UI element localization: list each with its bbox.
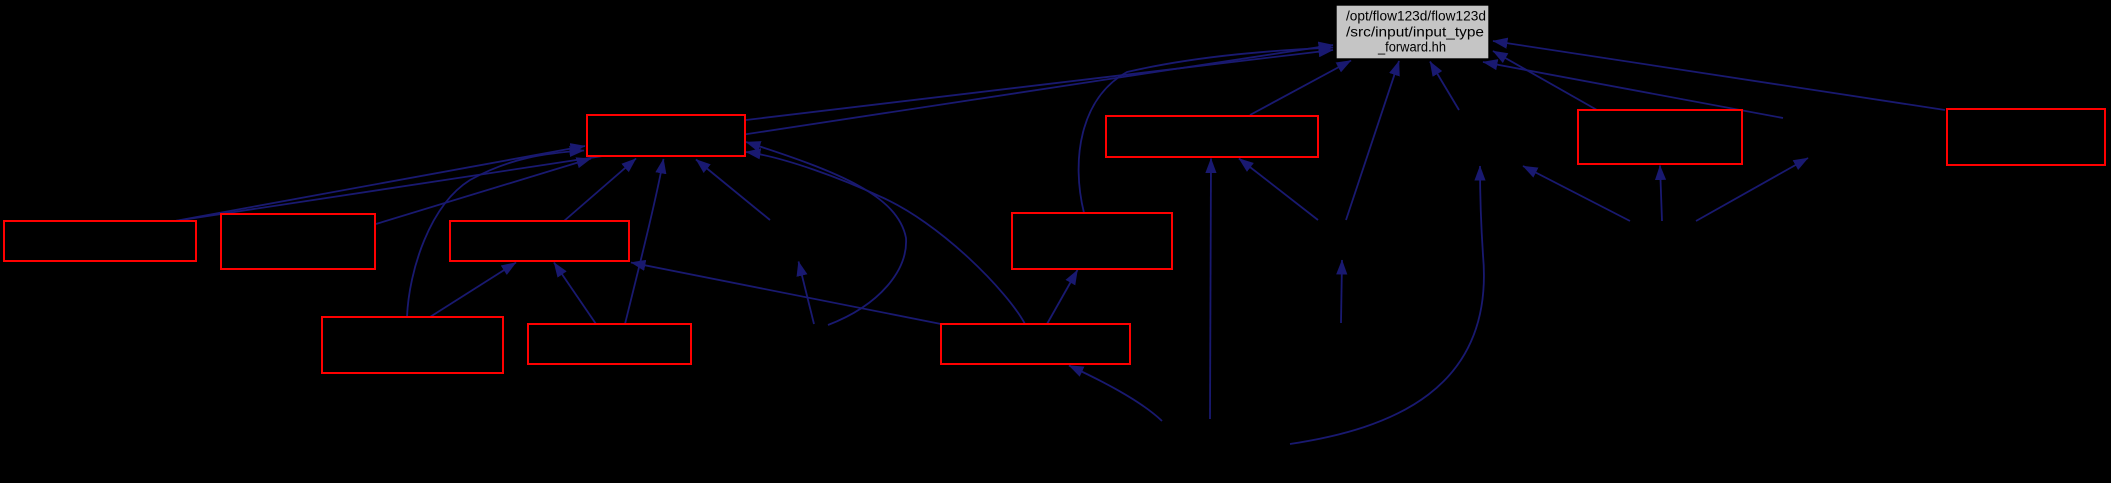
wire B1 to L3 (430, 263, 516, 318)
wire B3 to L4 (1047, 270, 1078, 324)
node B2 (528, 324, 691, 364)
node L4 (1012, 213, 1172, 269)
wire B3 to L3 (631, 263, 941, 325)
wire IN6a to IN5 (1523, 166, 1630, 221)
wire B1 to U1 curve (407, 151, 584, 318)
wire IN1 to U2 (1239, 159, 1318, 221)
node U4 (1947, 109, 2105, 165)
wire B3 to U1 curve (746, 152, 1025, 324)
svg-text:/src/input/input_type: /src/input/input_type (1346, 25, 1484, 40)
node L3 (450, 221, 629, 261)
wire L3 to U1 (564, 159, 636, 222)
wire L4 to root arc (1079, 48, 1333, 214)
wire L1 to U1 (175, 146, 585, 221)
root node /opt/flow123d/flow123d/src/input/input_type_forward.hh (1336, 5, 1489, 59)
node U3 (1578, 110, 1742, 164)
wire L2 to U1 (376, 159, 591, 225)
node L1 (4, 221, 196, 261)
wire B2 to U1 (625, 159, 664, 324)
wire U3 to root (1493, 51, 1597, 110)
wire IN3 to IN2 (799, 262, 815, 325)
wire BN1 to IN5 big curve (1290, 166, 1484, 444)
wire BN1 to B3 (1069, 366, 1162, 422)
svg-text:/opt/flow123d/flow123d: /opt/flow123d/flow123d (1346, 9, 1486, 24)
wire L1 to root (175, 45, 1333, 221)
wire IN3 to U1 curve (746, 142, 906, 325)
wire IN7 to root (1483, 62, 1783, 118)
wire BN1 to U2 vertical (1210, 159, 1211, 420)
wire IN4 to IN1 vertical (1341, 260, 1342, 323)
wire IN1 to root (1346, 61, 1399, 220)
wire B2 to L3 (554, 263, 596, 325)
wire U1 to root (746, 50, 1333, 120)
node B1 (322, 317, 503, 373)
wire U2 to root (1250, 61, 1351, 116)
wire IN6a to U3 (1660, 166, 1662, 222)
node B3 (941, 324, 1130, 364)
node U1 (587, 115, 745, 156)
wire U4 to root (1493, 41, 1945, 110)
wire IN5 to root (1430, 62, 1459, 111)
wire IN6a to IN7 (1696, 158, 1808, 221)
svg-text:_forward.hh: _forward.hh (1377, 40, 1446, 55)
wire IN2 to U1 (696, 160, 770, 221)
node U2 (1106, 116, 1318, 157)
node L2 (221, 214, 375, 269)
